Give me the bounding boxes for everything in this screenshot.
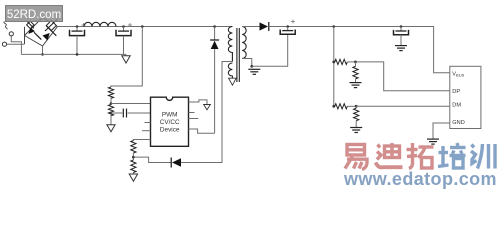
- watermark blue char 训: [471, 144, 495, 169]
- bridge diode D2 (on right-bottom arm, filled): [43, 26, 57, 41]
- wire IC pin5 to lower resistor: [133, 140, 150, 141]
- wire GND pin: [433, 123, 450, 139]
- transformer secondary winding: [242, 27, 246, 59]
- wire divider mid to bottom wire: [133, 157, 171, 162]
- transformer T1 primary winding: [228, 27, 232, 62]
- transformer aux winding: [228, 63, 232, 78]
- wire to IC pin 1: [111, 103, 151, 105]
- wire DM path: [356, 105, 450, 107]
- svg-text:GND: GND: [452, 120, 464, 126]
- watermark blue url: [344, 169, 497, 190]
- node bridge bottom on rail: [41, 53, 44, 56]
- svg-text:VBUS: VBUS: [452, 72, 464, 78]
- svg-text:PWM: PWM: [162, 112, 178, 119]
- wire secondary bottom return: [242, 59, 252, 67]
- AC source squiggle: [4, 22, 7, 30]
- watermark red char 拓: [407, 143, 434, 169]
- ground (input, hollow triangle): [122, 54, 130, 63]
- wire bottom rail: [21, 53, 126, 55]
- node secondary return: [250, 65, 253, 68]
- wire startup line down to left resistor: [111, 27, 142, 88]
- wire C3 to IC pin 2: [128, 112, 151, 114]
- wire secondary top to output diode: [242, 26, 259, 28]
- node divider rail tap: [333, 25, 336, 28]
- ground (R5, earth bars): [350, 83, 362, 88]
- diode D5 (bottom, pointing left): [171, 158, 181, 168]
- node divider mid: [132, 156, 135, 159]
- inductor L1: [84, 22, 116, 26]
- wire DP path: [356, 62, 450, 91]
- bridge diode D4 (top-right, hollow): [45, 19, 58, 31]
- AC terminal circle bottom: [2, 42, 6, 46]
- capacitor C4 (output electrolytic): [280, 20, 295, 35]
- node DM divider: [355, 105, 358, 108]
- ground (R7, earth bars): [350, 128, 362, 133]
- diode D6 (clamp, pointing up): [210, 27, 219, 134]
- node startup tap on top rail: [141, 25, 144, 28]
- svg-text:DM: DM: [452, 103, 461, 109]
- wire to mid node: [132, 153, 134, 160]
- node R4 left: [332, 61, 335, 64]
- resistor R2 (divider upper): [131, 141, 136, 154]
- arrow end (hollow, down): [204, 105, 211, 110]
- capacitor C2 (second filter electrolytic): [116, 23, 132, 54]
- transformer core: [236, 28, 238, 82]
- wire diode to drain line: [181, 62, 232, 163]
- ground (below R1, hollow triangle): [107, 125, 115, 132]
- IC right stub pin: [189, 112, 195, 114]
- wire to capacitor C3: [111, 112, 122, 114]
- USB connector J1: [450, 66, 481, 128]
- node clamp tap on rail: [213, 25, 216, 28]
- diode D7 (output rectifier): [260, 22, 269, 31]
- wire top rail (bridge to transformer primary): [58, 26, 233, 28]
- ground (C5, earth bars): [395, 46, 407, 51]
- wire from top terminal down to bottom rail: [11, 36, 21, 54]
- AC terminal circle top: [9, 32, 13, 36]
- IC U1 PWM CV/CC Device: [151, 97, 189, 146]
- resistor R1a (startup divider upper, vertical): [108, 87, 113, 98]
- resistor R3 (divider lower): [131, 160, 136, 173]
- resistor R7 (vertical to ground): [354, 106, 359, 127]
- capacitor C1 (input electrolytic): [70, 23, 86, 56]
- svg-text:CV/CC: CV/CC: [160, 119, 180, 126]
- watermark blue char 培: [438, 143, 466, 168]
- capacitor C3 (series, vertical plates): [122, 109, 124, 118]
- resistor R1b (startup divider lower, vertical): [108, 105, 113, 116]
- wire R3 to ground: [132, 173, 134, 175]
- node pin1 tap: [110, 102, 113, 105]
- arrow end aux (hollow, down): [229, 78, 237, 85]
- IC left stub pin 4: [142, 130, 151, 132]
- resistor R4 (horizontal): [335, 59, 348, 64]
- wire bridge bottom vertex down to bottom rail: [42, 46, 44, 54]
- IC left stub pin 3: [145, 122, 151, 124]
- ground (GND pin, earth bars): [427, 139, 439, 144]
- capacitor C5 (Vbus, top right): [394, 25, 409, 45]
- wire return to output cap: [252, 35, 288, 67]
- ground (secondary, earth bars): [248, 69, 260, 74]
- ground (divider bottom, hollow triangle): [129, 174, 137, 181]
- svg-text:DP: DP: [452, 89, 460, 95]
- resistor R5 (vertical to ground): [353, 62, 358, 82]
- watermark red char 迪: [376, 143, 403, 167]
- wire from bottom terminal to bridge left corner: [7, 43, 25, 45]
- wire IC pin R3 to clamp line: [189, 129, 215, 133]
- node DP divider: [354, 61, 357, 64]
- bridge rectifier frame: [25, 18, 58, 47]
- svg-text:52RD.com: 52RD.com: [7, 9, 61, 21]
- wire divider rail down: [333, 27, 335, 107]
- resistor R6 (horizontal lower): [332, 105, 335, 108]
- wire R4 to node: [347, 61, 355, 63]
- wire IC pin R1 to arrow: [189, 100, 208, 105]
- IC right stub pin: [189, 118, 199, 120]
- bridge diode D1 (on left-top arm, filled): [29, 28, 42, 40]
- watermark red char 易: [345, 145, 367, 170]
- watermark 52RD.com box: [6, 6, 63, 22]
- bridge diode D3 (top-left, hollow): [27, 21, 34, 29]
- svg-text:Device: Device: [160, 127, 180, 134]
- wire R1 bottom to ground: [110, 113, 112, 125]
- node pin2 tap: [110, 112, 113, 115]
- wire secondary rail to Vbus corner: [269, 27, 450, 73]
